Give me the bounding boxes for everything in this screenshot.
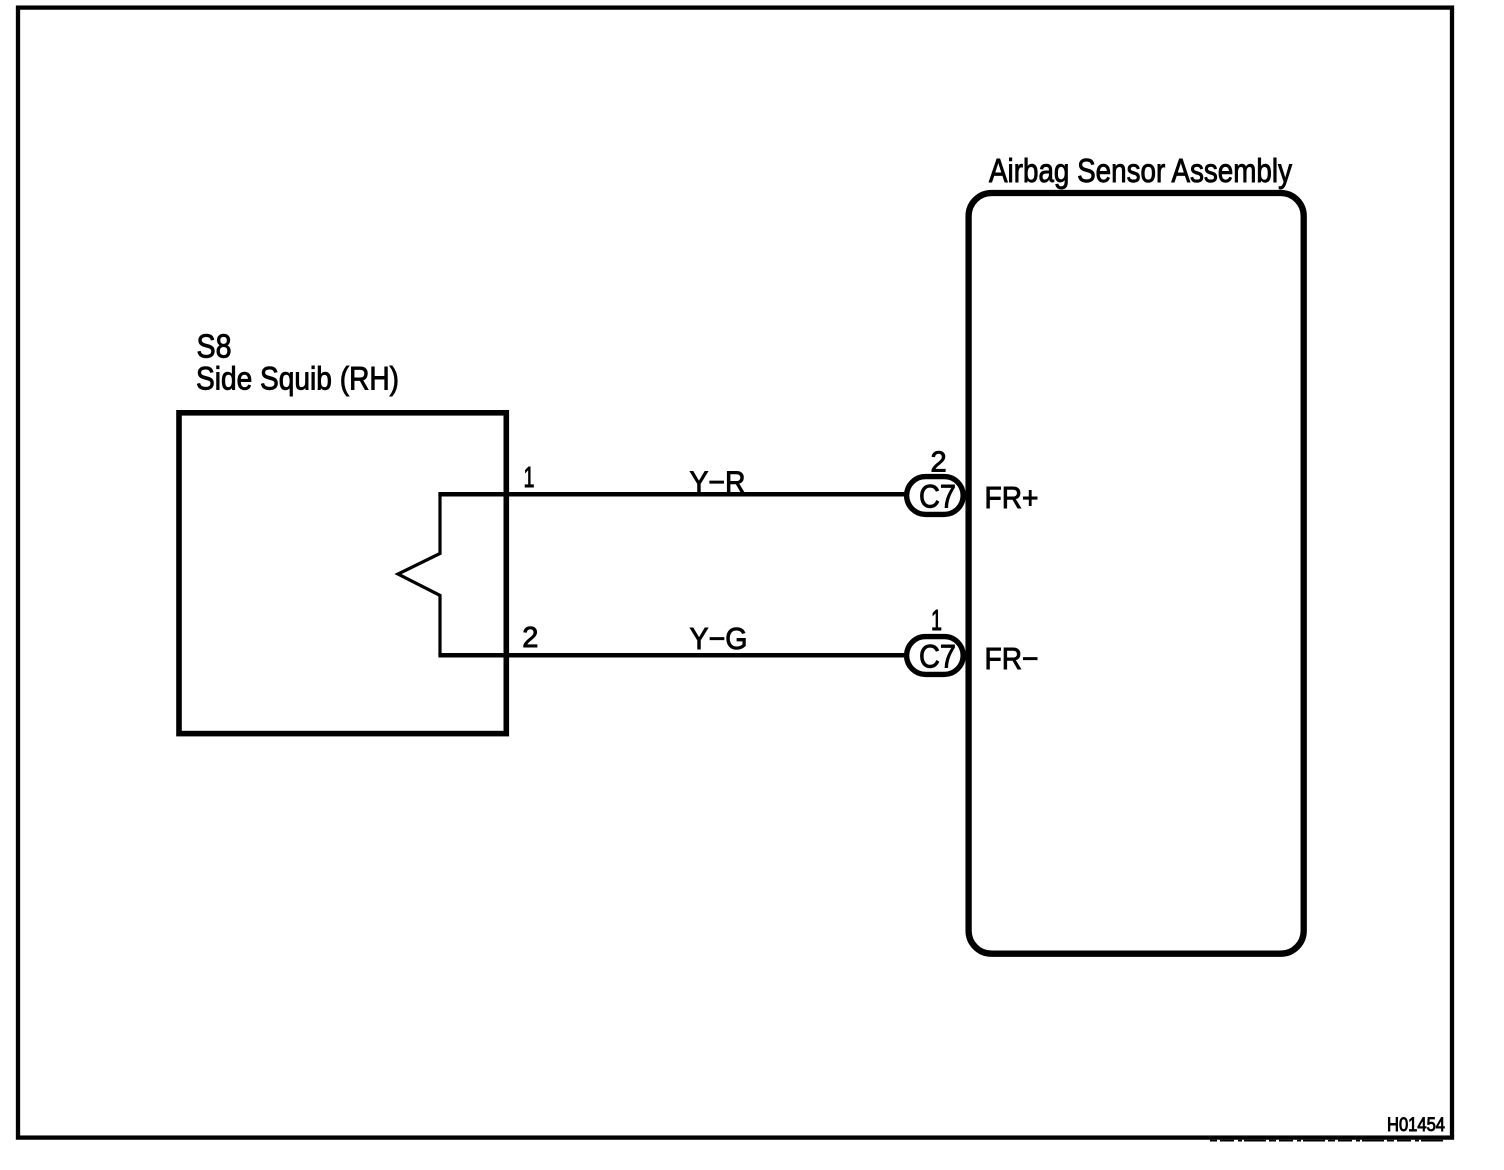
wire Y-G from S8 pin 2 to C7 pin 1 bbox=[438, 653, 907, 658]
svg-text:FR+: FR+ bbox=[985, 480, 1039, 515]
svg-text:Y−G: Y−G bbox=[690, 621, 748, 656]
svg-text:Airbag Sensor Assembly: Airbag Sensor Assembly bbox=[989, 152, 1292, 189]
svg-text:Side Squib (RH): Side Squib (RH) bbox=[196, 361, 399, 397]
wire Y-R from S8 pin 1 to C7 pin 2 bbox=[438, 492, 907, 497]
svg-text:2: 2 bbox=[931, 446, 947, 478]
svg-text:FR−: FR− bbox=[985, 641, 1039, 676]
svg-text:H01454: H01454 bbox=[1387, 1115, 1445, 1136]
svg-text:Y−R: Y−R bbox=[690, 465, 746, 500]
connector C7 oval (FR-) bbox=[907, 637, 964, 675]
svg-text:C7: C7 bbox=[919, 479, 956, 515]
connector S8 Side Squib (RH) box bbox=[179, 413, 506, 734]
Airbag Sensor Assembly box bbox=[969, 193, 1304, 954]
svg-text:C7: C7 bbox=[919, 639, 956, 675]
svg-text:2: 2 bbox=[522, 622, 538, 654]
svg-text:1: 1 bbox=[524, 462, 535, 494]
squib connector chevron symbol bbox=[398, 494, 440, 655]
svg-text:1: 1 bbox=[931, 605, 942, 637]
connector C7 oval (FR+) bbox=[907, 477, 964, 515]
svg-text:S8: S8 bbox=[197, 328, 232, 365]
scan artifact line below bottom border bbox=[1210, 1140, 1446, 1142]
